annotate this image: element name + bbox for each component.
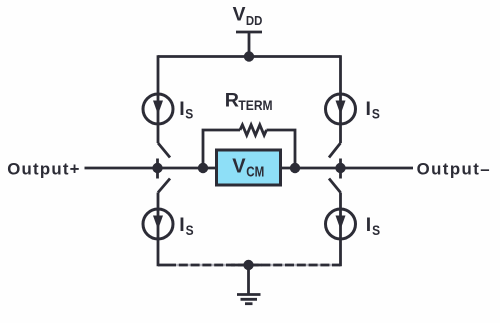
wire VDD stem <box>248 32 251 57</box>
svg-text:I: I <box>179 98 184 120</box>
wire Output+ lead <box>85 167 217 170</box>
switch bottom-left stub <box>156 168 159 179</box>
voltage source VCM box <box>217 150 281 185</box>
junction node OUT- <box>335 163 345 173</box>
ground stem <box>247 265 250 294</box>
label IS bottom-left <box>179 214 193 238</box>
switch top-right stub <box>339 159 342 169</box>
svg-text:V: V <box>233 4 246 25</box>
net VDD label <box>233 4 263 27</box>
svg-text:I: I <box>366 98 371 120</box>
switch top-right blade <box>329 143 341 158</box>
svg-text:Output+: Output+ <box>7 159 81 178</box>
wire bottom rail left corner <box>158 264 167 267</box>
svg-text:S: S <box>185 106 193 122</box>
switch bottom-left blade <box>158 179 170 193</box>
svg-text:I: I <box>179 214 184 236</box>
wire left upper branch <box>157 55 160 143</box>
wire RTERM right riser <box>267 130 296 168</box>
ground symbol <box>237 295 261 304</box>
wire Output- lead <box>281 167 414 170</box>
current source IS bottom-left <box>143 209 173 239</box>
current source IS top-right <box>326 94 356 124</box>
svg-text:Output–: Output– <box>417 159 491 178</box>
current source IS bottom-right <box>326 209 356 239</box>
svg-text:CM: CM <box>246 164 264 181</box>
junction node OUT+ <box>152 163 162 173</box>
label IS top-left <box>179 98 193 122</box>
svg-text:S: S <box>372 106 380 122</box>
switch top-left blade <box>158 143 170 158</box>
svg-text:S: S <box>372 222 380 238</box>
svg-text:S: S <box>186 222 194 238</box>
wire bottom rail (watermark-dashed) <box>167 264 332 266</box>
switch bottom-right blade <box>329 179 341 193</box>
wire RTERM left riser <box>203 130 240 168</box>
svg-text:R: R <box>225 90 239 112</box>
current source IS top-left <box>143 94 173 124</box>
VDD supply bar <box>236 31 262 34</box>
svg-text:V: V <box>232 156 246 178</box>
junction ground node <box>243 260 253 270</box>
svg-text:I: I <box>366 214 371 236</box>
switch top-left stub <box>156 159 159 169</box>
wire right upper branch <box>339 55 342 143</box>
switch bottom-right stub <box>339 168 342 179</box>
junction VDD node <box>244 51 254 61</box>
wire top rail <box>158 55 341 58</box>
label IS top-right <box>366 98 380 122</box>
label RTERM <box>225 90 273 113</box>
svg-text:DD: DD <box>246 13 263 28</box>
wire right lower branch <box>339 193 342 267</box>
wire left lower branch <box>157 193 160 267</box>
label IS bottom-right <box>366 214 380 238</box>
label VCM <box>232 156 264 181</box>
wire bottom rail right corner <box>332 264 341 267</box>
resistor RTERM <box>240 125 267 135</box>
junction node RTERM-left <box>198 163 208 173</box>
svg-text:TERM: TERM <box>238 97 272 113</box>
junction node RTERM-right <box>290 163 300 173</box>
